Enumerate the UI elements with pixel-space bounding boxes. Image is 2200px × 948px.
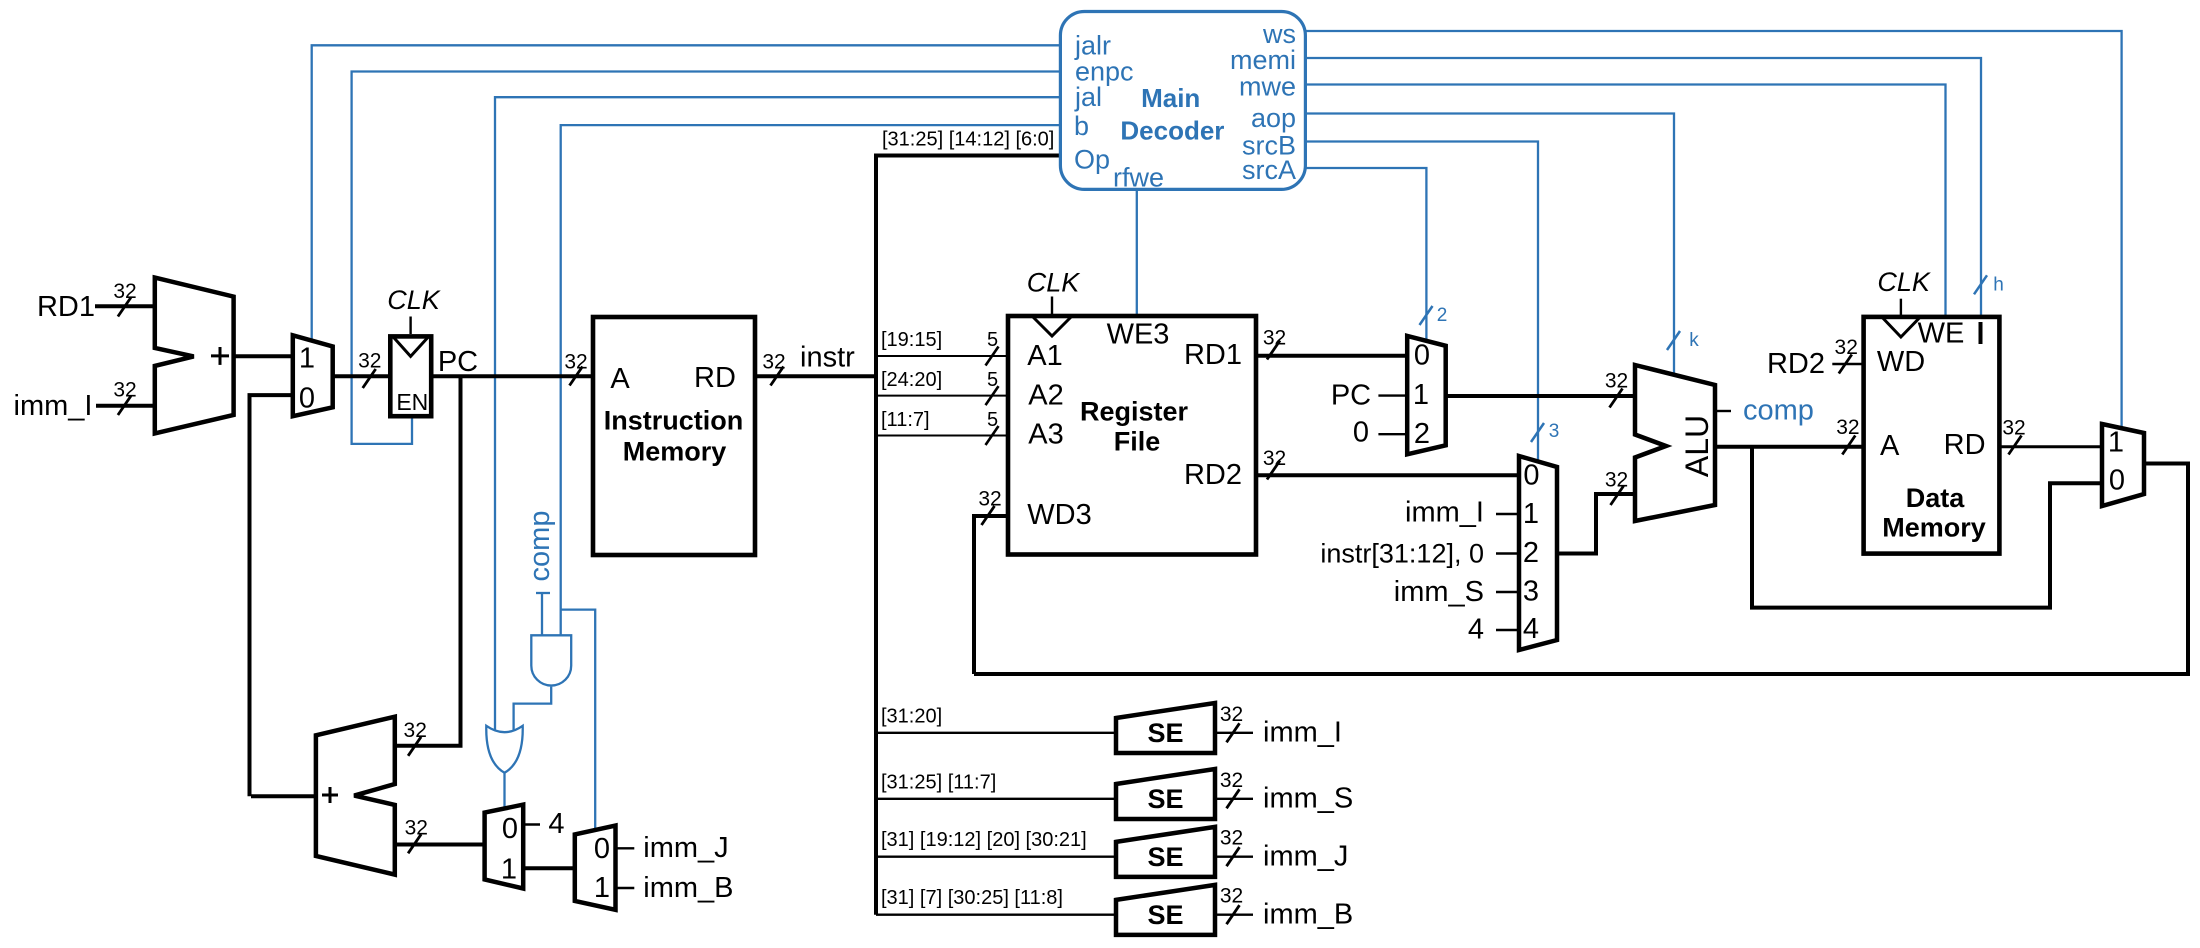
wire srcA mux out to ALU	[1446, 394, 1637, 398]
wire PC+4/branch riser to mux M1 input 0	[250, 395, 295, 796]
bus slash 32 srcB to ALU	[1611, 486, 1624, 505]
wire instr field to SE2	[876, 798, 1118, 800]
svg-text:0: 0	[2109, 465, 2125, 497]
svg-text:1: 1	[594, 872, 610, 904]
wire RD2 to srcB mux	[1256, 473, 1521, 477]
svg-text:32: 32	[1605, 370, 1628, 393]
svg-text:imm_S: imm_S	[1263, 783, 1353, 815]
svg-text:32: 32	[2002, 417, 2025, 440]
svg-text:32: 32	[1263, 327, 1286, 350]
svg-text:2: 2	[1437, 305, 1448, 326]
wire ws from Main Decoder to mux M5 select	[1305, 31, 2121, 428]
wire ALU result bypass around DM	[1752, 447, 2104, 608]
wire mux M1 out to PC register	[333, 374, 392, 378]
svg-text:Instruction: Instruction	[604, 406, 744, 436]
svg-text:b: b	[1074, 111, 1089, 141]
Main Decoder U1	[1060, 12, 1305, 190]
wire mwe from Main Decoder to DM WE	[1305, 85, 1945, 317]
bus slash 5 on A1	[986, 347, 999, 366]
svg-text:RD1: RD1	[1184, 339, 1242, 371]
wire PC stub into srcA mux	[1378, 394, 1407, 396]
svg-text:imm_B: imm_B	[643, 872, 733, 904]
mux srcB	[1519, 456, 1557, 650]
svg-text:k: k	[1689, 330, 1699, 351]
AND gate G1	[531, 635, 571, 685]
bus slash 32 SE3 out	[1227, 847, 1240, 866]
bus slash 32 ALU to DM	[1842, 436, 1855, 455]
wire SE4 out	[1215, 914, 1253, 916]
svg-text:h: h	[1993, 274, 2004, 295]
wire imm_J stub into mux M4	[616, 847, 635, 849]
wire SE1 out	[1215, 732, 1253, 734]
wire srcB select from Main Decoder	[1305, 142, 1538, 463]
wire srcB mux out to ALU	[1557, 494, 1637, 554]
bus slash 32 on RD2 out	[1267, 461, 1280, 480]
svg-text:imm_I: imm_I	[1405, 497, 1484, 529]
wire instr[11:7] to A3	[876, 435, 1008, 437]
svg-text:EN: EN	[396, 389, 428, 415]
svg-text:0: 0	[594, 833, 610, 865]
svg-text:2: 2	[1523, 537, 1539, 569]
wire RD1 into adder A1	[95, 304, 157, 308]
svg-text:32: 32	[1263, 447, 1286, 470]
svg-text:Memory: Memory	[623, 437, 727, 467]
bus slash 32 mux M1 to PC	[363, 369, 376, 388]
CLK stub of Register File	[1051, 297, 1053, 315]
bus slash h on memi	[1974, 275, 1987, 294]
wire RD1 to srcA mux	[1256, 354, 1409, 358]
svg-text:RD1: RD1	[37, 291, 95, 323]
svg-text:CLK: CLK	[1877, 267, 1931, 297]
wire imm_B stub into mux M4	[616, 887, 635, 889]
svg-text:5: 5	[987, 369, 998, 391]
wire WD3 feedback into Register File	[974, 516, 1008, 674]
wire memi from Main Decoder to Data Memory	[1305, 58, 1981, 318]
svg-text:Main: Main	[1141, 83, 1200, 113]
svg-text:32: 32	[1220, 703, 1243, 726]
wire mux M4 out to mux M3	[523, 866, 575, 870]
wire comp into AND gate	[541, 593, 543, 635]
svg-text:0: 0	[1414, 339, 1430, 371]
svg-text:A: A	[1880, 430, 1900, 462]
svg-text:WD3: WD3	[1027, 499, 1091, 531]
wire instr field to SE1	[876, 732, 1118, 734]
svg-text:SE: SE	[1147, 842, 1183, 872]
svg-text:4: 4	[548, 808, 564, 840]
mux M5 (writeback source)	[2102, 424, 2144, 506]
svg-text:32: 32	[1220, 827, 1243, 850]
wire 4 stub into srcB mux	[1496, 629, 1519, 631]
svg-text:File: File	[1114, 427, 1161, 457]
svg-text:PC: PC	[1331, 380, 1371, 412]
ALU U2	[1635, 365, 1715, 521]
svg-text:jal: jal	[1074, 82, 1102, 112]
bus slash 32 muxM3 to adder A2	[408, 834, 421, 853]
svg-text:32: 32	[1836, 416, 1859, 439]
svg-text:[31:20]: [31:20]	[881, 705, 942, 727]
wire rfwe from Main Decoder to WE3	[1136, 189, 1138, 316]
label + of adder A2	[322, 794, 338, 797]
wire SE2 out	[1215, 798, 1253, 800]
adder A2 (next PC)	[316, 717, 395, 875]
wire instr[19:15] to A1	[876, 355, 1008, 357]
bus slash 32 on RD1 out	[1267, 341, 1280, 360]
CLK stub of PC register	[409, 317, 411, 335]
svg-text:1: 1	[1413, 379, 1429, 411]
sign extender SE1	[1116, 703, 1215, 753]
wire aop from Main Decoder to ALU	[1305, 114, 1674, 376]
svg-text:1: 1	[1523, 498, 1539, 530]
bus slash 32 on imm_I adder input	[118, 396, 131, 415]
wire instr field to SE4	[876, 914, 1118, 916]
svg-text:32: 32	[762, 351, 785, 374]
wire b from Main Decoder to AND gate	[561, 125, 1061, 635]
wire RD2 stub into DM WD	[1832, 363, 1863, 365]
svg-text:2: 2	[1414, 418, 1430, 450]
svg-text:5: 5	[987, 329, 998, 351]
wire Op field to Main Decoder	[874, 154, 1060, 158]
svg-text:Data: Data	[1906, 483, 1966, 513]
svg-text:[31:25] [14:12] [6:0]: [31:25] [14:12] [6:0]	[882, 129, 1054, 151]
svg-text:[24:20]: [24:20]	[881, 369, 942, 391]
svg-text:1: 1	[501, 854, 517, 886]
wire instr31:12 stub into srcB mux	[1496, 552, 1519, 554]
svg-text:srcA: srcA	[1242, 155, 1296, 185]
PC register	[390, 336, 431, 416]
wire imm_I into adder A1	[96, 404, 157, 408]
bus slash 32 srcA to ALU	[1610, 389, 1623, 408]
mux M1 (PC source)	[293, 335, 333, 416]
bus slash 32 on RD1 adder input	[118, 298, 131, 317]
svg-text:A: A	[610, 363, 630, 395]
wire PC riser to adder A2	[396, 376, 461, 745]
svg-text:aop: aop	[1251, 103, 1296, 133]
svg-text:CLK: CLK	[387, 285, 441, 315]
wire srcA select from Main Decoder	[1305, 168, 1426, 342]
svg-text:imm_I: imm_I	[1263, 717, 1342, 749]
svg-text:Op: Op	[1074, 145, 1110, 175]
svg-text:imm_J: imm_J	[1263, 840, 1348, 872]
svg-text:[31] [7] [30:25] [11:8]: [31] [7] [30:25] [11:8]	[881, 887, 1063, 909]
svg-text:32: 32	[564, 351, 587, 374]
svg-text:Decoder: Decoder	[1120, 116, 1224, 146]
Instruction Memory block	[593, 317, 755, 555]
bus slash 32 on WD3	[982, 506, 995, 525]
svg-text:instr[31:12], 0: instr[31:12], 0	[1320, 539, 1484, 569]
svg-text:RD2: RD2	[1184, 459, 1242, 491]
adder A1 (PC+imm jalr target)	[155, 278, 234, 434]
svg-text:RD2: RD2	[1767, 348, 1825, 380]
wire jal from Main Decoder to OR gate	[495, 97, 1060, 734]
wire instr field to SE3	[876, 856, 1118, 858]
svg-text:instr: instr	[800, 342, 855, 374]
svg-text:imm_B: imm_B	[1263, 898, 1353, 930]
mux M3 (PC increment select)	[485, 805, 524, 889]
wire jalr from Main Decoder to mux M1 select	[312, 45, 1061, 342]
wire imm_I stub into srcB mux	[1496, 513, 1519, 515]
bus slash 3 on srcB select	[1531, 423, 1544, 442]
sign extender SE3	[1116, 827, 1215, 877]
svg-text:PC: PC	[438, 346, 478, 378]
wire PC to Instruction Memory	[431, 374, 595, 378]
sign extender SE2	[1116, 769, 1215, 819]
instr bus vertical	[874, 154, 878, 915]
bus slash 32 DM RD out	[2009, 436, 2022, 455]
clock wedge of PC register	[394, 337, 428, 356]
mux srcA	[1407, 336, 1446, 454]
svg-text:[31:25] [11:7]: [31:25] [11:7]	[881, 771, 996, 793]
svg-text:imm_S: imm_S	[1394, 576, 1484, 608]
svg-text:[11:7]: [11:7]	[881, 409, 930, 431]
wire instr from IM to instr bus	[755, 374, 878, 378]
svg-text:A2: A2	[1028, 380, 1063, 412]
bus slash 32 on instr	[771, 367, 784, 386]
svg-text:A1: A1	[1027, 340, 1062, 372]
svg-text:32: 32	[1835, 336, 1858, 359]
svg-text:0: 0	[502, 813, 518, 845]
wire 4 stub into mux M3	[523, 823, 540, 825]
bus slash 32 SE2 out	[1227, 789, 1240, 808]
wire 0 stub into srcA mux	[1378, 433, 1407, 435]
wire AND out to OR gate	[514, 687, 552, 734]
svg-text:32: 32	[1220, 769, 1243, 792]
svg-text:WE: WE	[1918, 318, 1965, 350]
OR gate G2	[486, 726, 522, 773]
svg-text:imm_I: imm_I	[14, 390, 93, 422]
wire SE3 out	[1215, 856, 1253, 858]
svg-text:[19:15]: [19:15]	[881, 329, 942, 351]
wire adder A2 out to riser	[251, 794, 316, 798]
svg-text:32: 32	[978, 488, 1001, 511]
bus slash 32 PC to IM	[570, 367, 583, 386]
bus slash 2 on srcA select	[1420, 306, 1433, 325]
svg-text:3: 3	[1523, 576, 1539, 608]
svg-text:32: 32	[1605, 469, 1628, 492]
wire imm_S stub into srcB mux	[1496, 591, 1519, 593]
svg-text:1: 1	[2108, 427, 2124, 459]
svg-text:Memory: Memory	[1882, 513, 1986, 543]
bus slash 32 PC into adder A2	[408, 737, 421, 756]
svg-text:rfwe: rfwe	[1113, 163, 1164, 193]
sign extender SE4	[1116, 885, 1215, 935]
bus slash 32 RD2 to WD	[1839, 355, 1852, 374]
svg-text:A3: A3	[1028, 419, 1063, 451]
svg-text:RD: RD	[1944, 429, 1986, 461]
svg-text:32: 32	[404, 719, 427, 742]
wire ALU result to Data Memory	[1715, 445, 1865, 449]
wire instr[24:20] to A2	[876, 395, 1008, 397]
svg-text:32: 32	[113, 379, 136, 402]
bus slash k on aop	[1667, 331, 1680, 350]
wire enpc from Main Decoder to PC EN	[352, 72, 1061, 444]
Register File block	[1008, 316, 1256, 555]
CLK stub of Data Memory	[1900, 299, 1902, 315]
svg-text:[31] [19:12] [20] [30:21]: [31] [19:12] [20] [30:21]	[881, 829, 1087, 851]
wire mux M5 out feedback to WD3	[974, 464, 2188, 675]
svg-text:WE3: WE3	[1107, 319, 1170, 351]
mux M4 (imm_J/imm_B select)	[575, 826, 616, 910]
svg-text:32: 32	[113, 280, 136, 303]
clock wedge of Register File	[1033, 317, 1071, 336]
svg-text:comp: comp	[524, 511, 556, 582]
svg-text:RD: RD	[694, 362, 736, 394]
svg-text:comp: comp	[1743, 395, 1814, 427]
svg-text:memi: memi	[1230, 45, 1296, 75]
svg-text:3: 3	[1549, 421, 1560, 442]
svg-text:1: 1	[299, 343, 315, 375]
wire OR out to mux M3 select	[503, 773, 505, 810]
svg-text:CLK: CLK	[1027, 268, 1081, 298]
svg-text:0: 0	[299, 383, 315, 415]
bus slash 5 on A3	[986, 426, 999, 445]
bus slash 32 SE1 out	[1227, 723, 1240, 742]
label + of adder A1	[211, 354, 229, 357]
svg-text:Register: Register	[1080, 397, 1189, 427]
svg-text:32: 32	[1220, 885, 1243, 908]
Data Memory block	[1864, 317, 2000, 554]
svg-text:0: 0	[1353, 417, 1369, 449]
svg-text:32: 32	[358, 349, 381, 372]
svg-text:mwe: mwe	[1239, 71, 1296, 101]
svg-text:4: 4	[1523, 613, 1539, 645]
svg-text:SE: SE	[1147, 718, 1183, 748]
svg-text:4: 4	[1468, 614, 1484, 646]
svg-text:imm_J: imm_J	[643, 832, 728, 864]
clock wedge of Data Memory	[1883, 318, 1920, 337]
bus slash 32 SE4 out	[1227, 905, 1240, 924]
wire b branch to mux M4 select	[561, 610, 596, 830]
wire DM RD out to mux M5	[1999, 445, 2104, 448]
svg-text:5: 5	[987, 409, 998, 431]
memi termination bar inside DM	[1979, 322, 1983, 344]
comp stub from ALU	[1715, 410, 1731, 412]
svg-text:32: 32	[405, 817, 428, 840]
svg-text:SE: SE	[1147, 900, 1183, 930]
wire mux M3 out to adder A2	[395, 843, 485, 847]
svg-text:0: 0	[1523, 460, 1539, 492]
wire adder A1 out to mux M1 input 1	[234, 354, 294, 358]
svg-text:SE: SE	[1147, 784, 1183, 814]
svg-text:ALU: ALU	[1679, 415, 1715, 477]
svg-text:WD: WD	[1877, 346, 1925, 378]
bus slash 5 on A2	[986, 386, 999, 405]
